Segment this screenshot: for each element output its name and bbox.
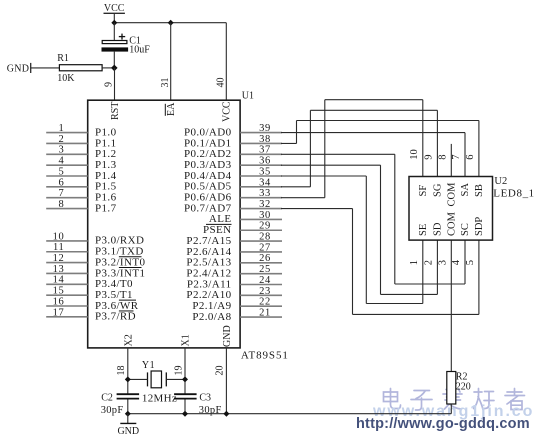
- watermark chinese text: [384, 389, 525, 411]
- svg-text:SF: SF: [418, 185, 429, 197]
- svg-text:9: 9: [104, 82, 115, 87]
- svg-text:SG: SG: [433, 183, 444, 197]
- wire VCC to pin40: [225, 23, 227, 101]
- pin label P3.4: [95, 278, 133, 290]
- pin 10 stub P3.0: [46, 231, 87, 242]
- pin label ALE: [209, 213, 232, 225]
- svg-text:AT89S51: AT89S51: [241, 350, 289, 362]
- svg-text:SDP: SDP: [474, 217, 485, 236]
- svg-text:33: 33: [259, 188, 271, 199]
- svg-text:VCC: VCC: [222, 101, 233, 122]
- pin 7 stub P1.6: [46, 188, 87, 199]
- pin 13 stub P3.3: [46, 264, 87, 275]
- svg-text:SD: SD: [433, 222, 444, 236]
- junction X1 crystal: [182, 376, 188, 382]
- pin label P2.7/A15: [186, 235, 231, 247]
- svg-text:10uF: 10uF: [129, 44, 150, 55]
- svg-text:10: 10: [53, 231, 65, 242]
- svg-text:15: 15: [53, 286, 65, 297]
- pin 27 stub: [240, 242, 282, 253]
- junction R1-RST: [111, 65, 118, 72]
- pin 36 stub: [240, 156, 282, 167]
- junction X2 crystal: [125, 376, 131, 382]
- pin label P2.6/A14: [186, 246, 231, 258]
- pin label PSEN: [203, 224, 232, 236]
- pin label P0.2/AD2: [184, 148, 232, 160]
- svg-text:30pF: 30pF: [101, 405, 124, 416]
- svg-text:3: 3: [438, 260, 449, 265]
- svg-text:U1: U1: [242, 90, 254, 101]
- svg-text:11: 11: [53, 242, 65, 253]
- svg-text:GND: GND: [222, 325, 233, 347]
- pin label P0.5/AD5: [184, 181, 232, 193]
- pin 1 stub P1.0: [46, 123, 87, 134]
- pin label P3.5: [95, 289, 133, 301]
- svg-text:5: 5: [465, 260, 476, 265]
- capacitor C1: [102, 23, 151, 68]
- svg-text:3: 3: [59, 145, 65, 156]
- svg-text:http://www.go-gddq.com: http://www.go-gddq.com: [356, 416, 530, 432]
- pin 12 stub P3.2: [46, 253, 87, 264]
- svg-text:X1: X1: [181, 334, 192, 346]
- svg-text:R1: R1: [57, 53, 69, 64]
- wire X1 pin19: [184, 348, 186, 414]
- svg-text:12: 12: [53, 253, 65, 264]
- svg-text:19: 19: [173, 366, 184, 376]
- svg-text:16: 16: [53, 296, 65, 307]
- wire P0.4 to SE: [281, 176, 423, 304]
- svg-text:28: 28: [259, 232, 271, 243]
- svg-text:18: 18: [116, 366, 127, 376]
- pin label P0.1/AD1: [184, 137, 232, 149]
- wire R2 to ground bus: [450, 404, 452, 414]
- wire P0.6 to SF: [281, 100, 423, 198]
- wire P0.2 to SC: [281, 154, 465, 284]
- svg-text:U2: U2: [494, 176, 507, 187]
- svg-text:7: 7: [59, 188, 65, 199]
- pin label P0.6/AD6: [184, 192, 232, 204]
- pin 34 stub: [240, 177, 282, 188]
- junction VCC-C1: [111, 20, 117, 26]
- svg-text:24: 24: [259, 275, 271, 286]
- junction C2 ground: [125, 411, 131, 417]
- svg-text:SE: SE: [418, 224, 429, 236]
- pin label P3.3: [95, 267, 145, 279]
- pin label P3.6: [95, 300, 139, 312]
- pin 5 stub P1.4: [46, 166, 87, 177]
- pin 8 stub P1.7: [46, 199, 87, 210]
- svg-text:5: 5: [59, 166, 65, 177]
- svg-text:39: 39: [259, 123, 271, 134]
- svg-text:SC: SC: [460, 223, 471, 236]
- svg-text:22: 22: [259, 297, 271, 308]
- pin label P3.2: [95, 256, 145, 268]
- wire EA pin31: [170, 23, 172, 101]
- pin label P2.5/A13: [186, 257, 231, 269]
- svg-text:30: 30: [259, 210, 271, 221]
- junction VCC-EA: [168, 20, 174, 26]
- svg-text:GND: GND: [7, 64, 30, 75]
- svg-text:P3.7/RD: P3.7/RD: [95, 311, 136, 323]
- svg-text:17: 17: [53, 307, 65, 318]
- wire X2 pin18: [127, 348, 129, 414]
- pin label P2.2/A10: [186, 289, 231, 301]
- wire R1 to RST: [102, 67, 115, 69]
- wire crystal to X1: [166, 378, 185, 380]
- pin 28 stub: [240, 232, 282, 243]
- svg-text:COM: COM: [447, 211, 458, 236]
- svg-text:20: 20: [215, 366, 226, 376]
- svg-text:31: 31: [160, 78, 171, 88]
- pin 39 stub: [240, 123, 282, 134]
- svg-text:P2.0/A8: P2.0/A8: [192, 311, 231, 323]
- svg-text:26: 26: [259, 253, 271, 264]
- svg-text:6: 6: [59, 177, 65, 188]
- pin label P0.4/AD4: [184, 170, 232, 182]
- svg-text:23: 23: [259, 286, 271, 297]
- svg-text:8: 8: [438, 155, 449, 160]
- pin label P2.1/A9: [192, 300, 231, 312]
- svg-text:1: 1: [409, 260, 420, 265]
- pin 30 stub: [240, 210, 282, 221]
- svg-text:38: 38: [259, 134, 271, 145]
- pin 24 stub: [240, 275, 282, 286]
- capacitor C2: [101, 392, 139, 416]
- svg-text:29: 29: [259, 221, 271, 232]
- svg-text:8: 8: [59, 199, 65, 210]
- svg-text:7: 7: [451, 155, 462, 160]
- svg-text:X2: X2: [123, 334, 134, 346]
- resistor R1: [57, 53, 102, 84]
- svg-text:2: 2: [59, 134, 65, 145]
- pin label P2.3/A11: [187, 278, 232, 290]
- IC U2 LED8_1 body: [409, 177, 493, 241]
- pin 35 stub: [240, 166, 282, 177]
- svg-text:30pF: 30pF: [199, 405, 222, 416]
- svg-text:35: 35: [259, 166, 271, 177]
- pin label P0.3/AD3: [184, 159, 232, 171]
- svg-text:EA: EA: [166, 102, 177, 116]
- svg-text:34: 34: [259, 177, 271, 188]
- ground GND bottom: [117, 414, 139, 437]
- pin label P2.0/A8: [192, 311, 231, 323]
- svg-text:4: 4: [451, 259, 462, 265]
- pin 15 stub P3.5: [46, 286, 87, 297]
- pin label P0.7/AD7: [184, 202, 232, 214]
- svg-text:32: 32: [259, 199, 271, 210]
- capacitor C3: [174, 392, 221, 416]
- svg-text:C3: C3: [199, 392, 211, 403]
- IC U1 AT89S51 body: [88, 100, 240, 348]
- junction pin20 ground: [223, 411, 229, 417]
- svg-text:14: 14: [53, 275, 65, 286]
- wire X2 to crystal: [128, 378, 148, 380]
- VCC power symbol: [104, 3, 125, 23]
- wire ground bus: [128, 413, 452, 415]
- svg-text:25: 25: [259, 264, 271, 275]
- svg-text:RST: RST: [110, 102, 121, 120]
- pin 16 stub P3.6: [46, 296, 87, 307]
- pin 25 stub: [240, 264, 282, 275]
- svg-text:13: 13: [53, 264, 65, 275]
- svg-text:36: 36: [259, 156, 271, 167]
- pin 6 stub P1.5: [46, 177, 87, 188]
- pin 38 stub: [240, 134, 282, 145]
- pin 11 stub P3.1: [46, 242, 87, 253]
- wire GND to R1: [31, 67, 60, 69]
- wire P0.1 to SB: [281, 121, 479, 177]
- pin label EA: [165, 102, 177, 116]
- pin label P3.0: [95, 235, 144, 247]
- pin 22 stub: [240, 297, 282, 308]
- wire COM pin3 to R2: [450, 240, 452, 371]
- wire GND pin20: [225, 348, 227, 414]
- wire P0.3 to SD: [281, 165, 437, 294]
- svg-text:37: 37: [259, 145, 271, 156]
- svg-text:Y1: Y1: [142, 360, 155, 371]
- svg-text:LED8_1: LED8_1: [493, 188, 534, 200]
- pin 3 stub P1.2: [46, 145, 87, 156]
- stub COM top pin8: [450, 144, 452, 177]
- svg-text:COM: COM: [447, 182, 458, 207]
- pin 37 stub: [240, 145, 282, 156]
- svg-text:9: 9: [424, 155, 435, 160]
- pin 29 stub: [240, 221, 282, 232]
- resistor R2: [447, 371, 471, 404]
- crystal Y1: [142, 360, 177, 404]
- pin 21 stub: [240, 307, 282, 318]
- svg-text:2: 2: [424, 260, 435, 265]
- svg-text:GND: GND: [117, 426, 139, 437]
- pin label P3.1: [95, 246, 144, 258]
- pin 2 stub P1.1: [46, 134, 87, 145]
- svg-text:12MHz: 12MHz: [142, 393, 177, 405]
- svg-text:C2: C2: [101, 392, 113, 403]
- svg-text:6: 6: [465, 155, 476, 160]
- svg-text:10: 10: [409, 149, 420, 160]
- pin 14 stub P3.4: [46, 275, 87, 286]
- wire P0.0 to SA: [281, 133, 465, 177]
- junction C3 ground: [182, 411, 188, 417]
- svg-text:10K: 10K: [57, 73, 75, 84]
- svg-text:SB: SB: [474, 184, 485, 197]
- svg-text:VCC: VCC: [104, 3, 125, 14]
- pin 17 stub P3.7: [46, 307, 87, 318]
- wire P0.7 to SDP: [281, 209, 479, 315]
- svg-text:40: 40: [216, 78, 227, 88]
- wire VCC rail horizontal: [114, 22, 226, 24]
- pin 32 stub: [240, 199, 282, 210]
- wire RST pin9: [114, 68, 116, 100]
- svg-text:220: 220: [456, 382, 471, 393]
- svg-text:1: 1: [59, 123, 65, 134]
- wire P0.5 to SG: [281, 110, 437, 187]
- pin label P0.0/AD0: [184, 126, 232, 138]
- ground GND left: [7, 63, 31, 75]
- svg-text:27: 27: [259, 242, 271, 253]
- pin 4 stub P1.3: [46, 156, 87, 167]
- svg-text:P1.7: P1.7: [95, 202, 117, 214]
- pin label P3.7: [95, 311, 136, 323]
- pin 23 stub: [240, 286, 282, 297]
- svg-text:4: 4: [59, 156, 65, 167]
- pin 26 stub: [240, 253, 282, 264]
- svg-text:21: 21: [259, 307, 271, 318]
- svg-text:SA: SA: [460, 183, 471, 197]
- pin 33 stub: [240, 188, 282, 199]
- pin label P2.4/A12: [186, 267, 231, 279]
